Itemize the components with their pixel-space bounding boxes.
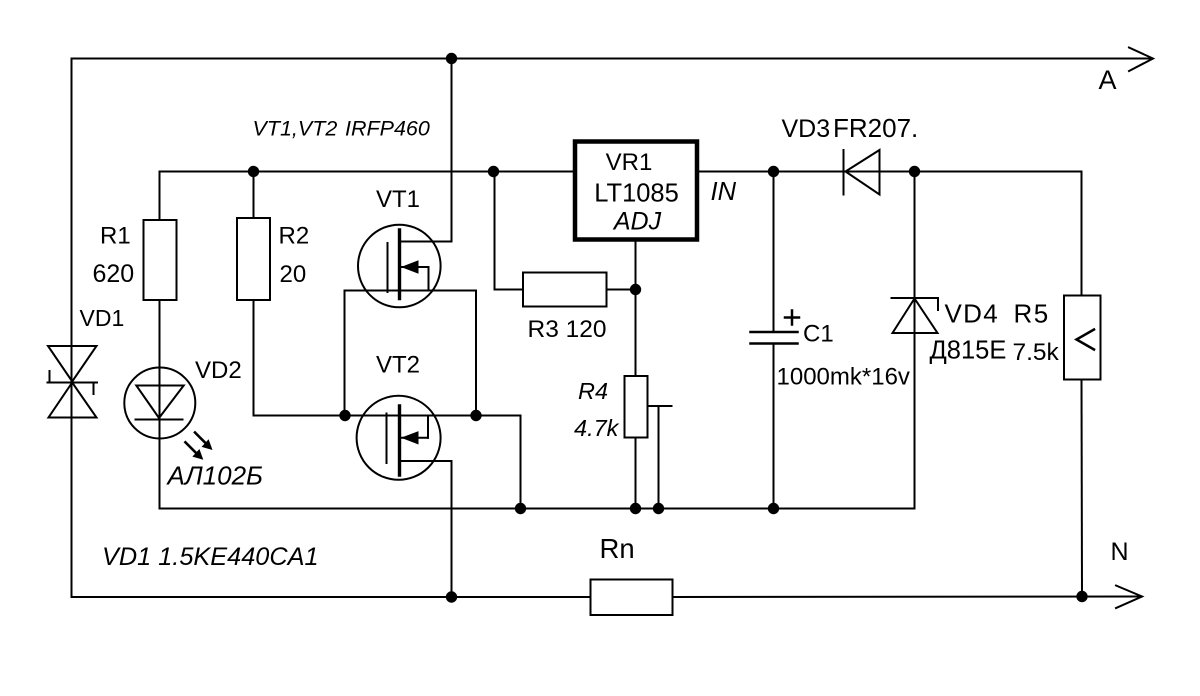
wire top rail A	[72, 59, 1152, 341]
node top rail / VT1 drain	[446, 53, 457, 64]
svg-text:Rn: Rn	[600, 533, 635, 564]
node VD4 top	[909, 166, 920, 177]
svg-text:A: A	[1099, 65, 1117, 95]
svg-text:IRFP460: IRFP460	[345, 117, 430, 141]
resistor Rn	[591, 580, 673, 616]
node gates	[339, 410, 350, 421]
zener VD4	[892, 172, 939, 509]
node bus / R4	[630, 503, 641, 514]
diode VD3	[844, 150, 880, 195]
node R3/ADJ	[630, 284, 641, 295]
arrowhead N	[1116, 586, 1142, 609]
resistor R2	[237, 172, 345, 416]
resistor R4	[625, 376, 648, 509]
wire VR1 ADJ lead	[635, 240, 637, 377]
node R3 top	[488, 166, 499, 177]
svg-text:Д815Е: Д815Е	[930, 337, 1007, 365]
resistor R1	[144, 220, 177, 300]
wire VD2 to bus	[160, 439, 915, 509]
svg-text:R1: R1	[100, 223, 131, 250]
svg-text:VD1: VD1	[80, 305, 125, 331]
svg-text:1000mk*16v: 1000mk*16v	[777, 364, 910, 391]
node VT1 source / VT2 drain	[470, 410, 481, 421]
svg-text:N: N	[1111, 538, 1129, 566]
node C1 top	[768, 166, 779, 177]
arrowhead A	[1129, 48, 1153, 72]
svg-text:VD1 1.5KE440CA1: VD1 1.5KE440CA1	[102, 543, 319, 571]
node bus / VT	[515, 503, 526, 514]
wire left vertical lower	[71, 340, 73, 597]
capacitor C1	[751, 172, 800, 509]
wire bottom rail right	[673, 596, 1141, 599]
LED VD2	[124, 368, 195, 439]
svg-text:620: 620	[93, 260, 135, 288]
wire VT node to bus	[476, 416, 521, 509]
svg-text:C1: C1	[803, 321, 834, 348]
svg-text:R2: R2	[279, 223, 310, 250]
wire VR1 out rail	[697, 171, 1082, 173]
svg-text:ADJ: ADJ	[612, 208, 662, 236]
transistor VT1 (MOSFET)	[345, 59, 477, 416]
node bus / tap	[653, 503, 664, 514]
svg-text:4.7k: 4.7k	[574, 415, 620, 441]
transistor VT2 (MOSFET)	[345, 396, 476, 597]
svg-text:IN: IN	[711, 178, 737, 206]
svg-text:VD2: VD2	[195, 357, 242, 384]
node R2 top	[248, 166, 259, 177]
resistor R5	[1064, 172, 1101, 597]
R4 tap	[650, 406, 672, 509]
node bottom rail / R5	[1076, 591, 1087, 602]
svg-text:VD4: VD4	[945, 299, 999, 329]
svg-text:R5: R5	[1014, 299, 1050, 329]
svg-text:R3 120: R3 120	[528, 316, 607, 343]
op-amp/regulator VR1 box	[575, 142, 697, 240]
svg-text:FR207.: FR207.	[833, 113, 918, 143]
LED arrows	[185, 433, 212, 460]
wire bottom rail left	[72, 596, 591, 598]
diode VD1 (bidirectional TVS)	[48, 346, 98, 418]
svg-text:LT1085: LT1085	[594, 180, 679, 208]
node bottom rail / VT2 source	[446, 591, 457, 602]
resistor R3	[495, 172, 636, 307]
svg-text:7.5k: 7.5k	[1013, 339, 1060, 366]
svg-text:VR1: VR1	[606, 149, 653, 176]
svg-text:VT1,VT2: VT1,VT2	[253, 117, 338, 141]
svg-text:VT2: VT2	[376, 352, 420, 379]
node bus / C1	[768, 503, 779, 514]
svg-text:АЛ102Б: АЛ102Б	[166, 461, 264, 491]
wire mid rail	[160, 172, 576, 221]
svg-text:VT1: VT1	[376, 186, 420, 213]
wire R1 to VD2	[159, 300, 161, 368]
svg-text:20: 20	[280, 261, 307, 288]
svg-text:R4: R4	[578, 378, 608, 404]
svg-text:VD3: VD3	[782, 115, 831, 143]
